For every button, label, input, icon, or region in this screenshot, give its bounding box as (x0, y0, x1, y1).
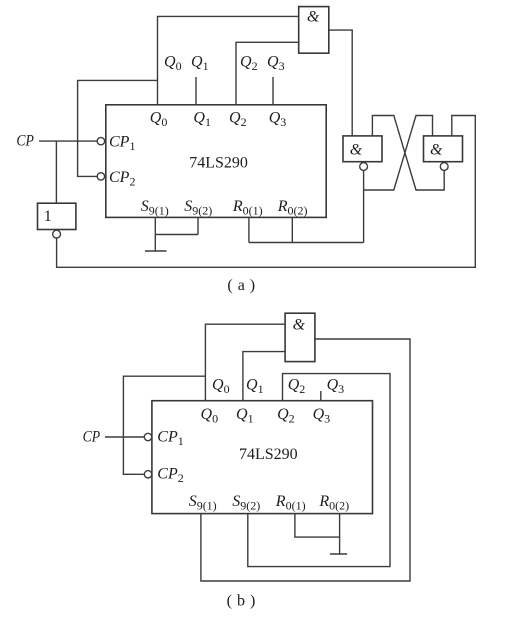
svg-text:74LS290: 74LS290 (189, 155, 248, 172)
svg-text:&: & (350, 142, 363, 159)
svg-text:CP: CP (16, 133, 34, 150)
svg-text:CP: CP (83, 429, 101, 446)
svg-text:1: 1 (44, 208, 52, 225)
svg-text:( b ): ( b ) (227, 593, 256, 610)
svg-text:&: & (430, 142, 443, 159)
svg-text:74LS290: 74LS290 (239, 446, 298, 463)
svg-text:( a ): ( a ) (227, 277, 255, 294)
svg-text:&: & (307, 9, 320, 26)
svg-text:&: & (293, 316, 306, 333)
